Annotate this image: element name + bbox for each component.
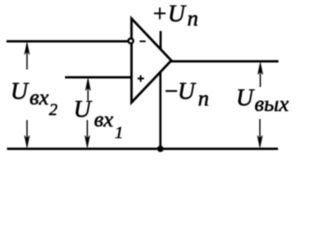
arrow up at output line (U vyx) — [258, 63, 263, 88]
svg-text:вх: вх — [94, 107, 114, 132]
svg-text:n: n — [187, 6, 198, 31]
svg-text:1: 1 — [115, 123, 124, 142]
minus marker inside op-amp — [140, 40, 146, 42]
svg-text:U: U — [236, 85, 255, 111]
svg-text:вх: вх — [30, 85, 50, 110]
wire output line — [170, 60, 279, 62]
svg-text:n: n — [198, 86, 209, 111]
op-amp U1 triangle — [132, 19, 172, 103]
plus marker inside op-amp — [138, 75, 145, 81]
wire inverting input line — [7, 40, 129, 42]
arrow down to rail (U vx1) — [85, 120, 90, 148]
wire positive supply pin — [160, 31, 162, 50]
wire negative supply pin — [159, 73, 161, 150]
svg-text:U: U — [178, 79, 197, 105]
svg-text:+: + — [152, 2, 168, 28]
inversion bubble on inverting input — [128, 38, 133, 43]
arrow down to rail (U vx2) — [25, 120, 30, 148]
svg-text:U: U — [74, 97, 93, 123]
svg-text:U: U — [168, 2, 187, 28]
junction dot on rail — [157, 146, 163, 152]
arrow down to rail (U vyx) — [257, 119, 262, 148]
wire non-inverting input line — [65, 76, 132, 78]
svg-text:U: U — [11, 79, 30, 105]
arrow up at inverting input (U vx2) — [25, 43, 30, 70]
svg-text:вых: вых — [255, 91, 289, 116]
wire common bottom rail — [7, 148, 278, 150]
svg-text:2: 2 — [49, 100, 58, 119]
arrow up at non-inverting input (U vx1) — [86, 79, 91, 101]
